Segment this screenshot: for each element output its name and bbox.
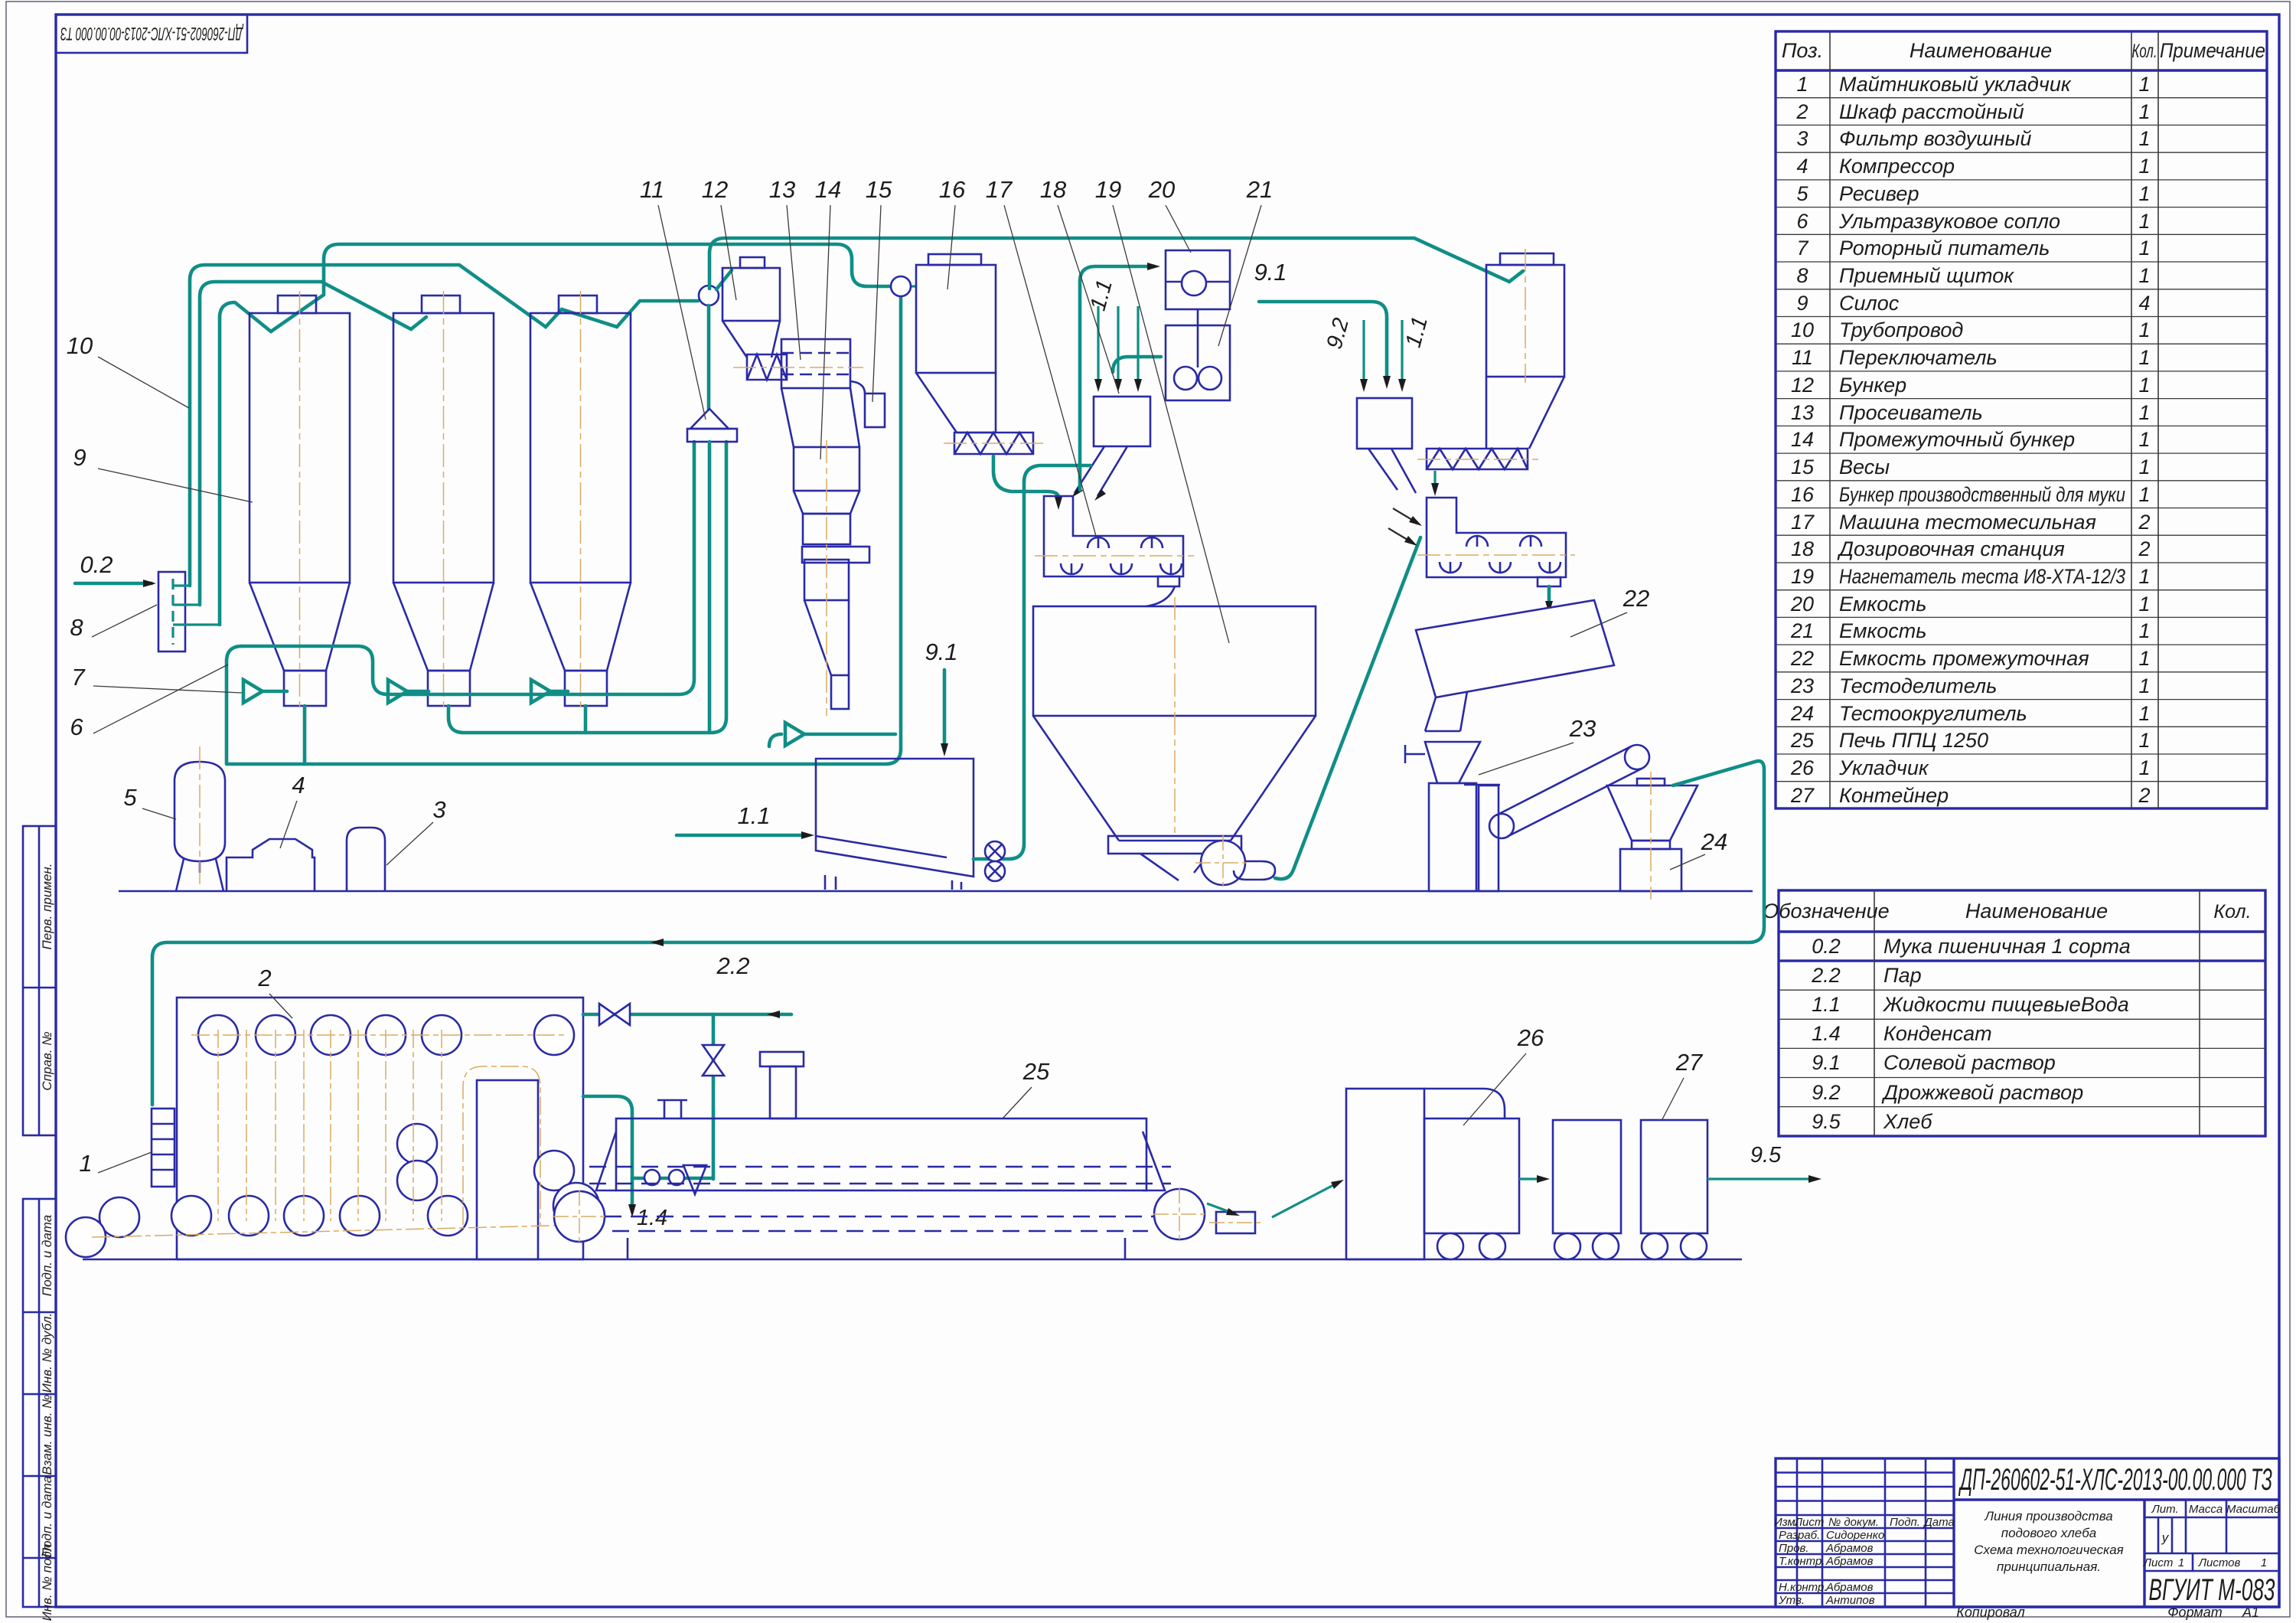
scales 15 (850, 381, 885, 427)
label 27 leader (1662, 1049, 1704, 1119)
svg-text:19: 19 (1791, 565, 1814, 588)
label 22 leader (1570, 585, 1649, 637)
bunker 12 (722, 257, 780, 358)
svg-text:Емкость: Емкость (1839, 593, 1926, 616)
upper section floor line (119, 890, 1753, 893)
pipe run lower A-B cascade (242, 442, 694, 694)
svg-text:Солевой раствор: Солевой раствор (1883, 1051, 2056, 1074)
sifter 13 (733, 339, 863, 388)
svg-text:12: 12 (1791, 374, 1814, 397)
svg-text:Нагнетатель теста И8-ХТА-12/3: Нагнетатель теста И8-ХТА-12/3 (1839, 565, 2125, 588)
svg-text:1.4: 1.4 (1812, 1022, 1841, 1045)
tank 21 with agitator (1166, 309, 1230, 400)
pipe to silo 1 and production bunker 16 (220, 244, 889, 625)
svg-text:Шкаф расстойный: Шкаф расстойный (1839, 100, 2024, 123)
svg-text:2: 2 (2138, 537, 2150, 560)
svg-text:1: 1 (2138, 318, 2150, 341)
pipe bunker16 screw to mixer 17 (993, 456, 1058, 504)
svg-text:13: 13 (1791, 401, 1814, 424)
return pipe rounder to proofer (152, 761, 1764, 1105)
intermediate bunker 14 (781, 388, 869, 716)
dough hopper 19 (1033, 597, 1316, 890)
svg-text:2.2: 2.2 (1811, 964, 1841, 987)
svg-text:1.4: 1.4 (637, 1206, 667, 1230)
containers 27 (1553, 1120, 1707, 1259)
title block (1774, 1458, 2281, 1607)
svg-text:26: 26 (1517, 1024, 1544, 1051)
svg-text:25: 25 (1790, 729, 1815, 752)
svg-text:Сидоренко: Сидоренко (1826, 1529, 1884, 1542)
bread transfer arrows to stacker (1207, 1180, 1344, 1217)
svg-text:Дата: Дата (1923, 1516, 1955, 1529)
pipe to silo 2 (200, 282, 426, 605)
feeder outlet stubs (263, 690, 568, 694)
svg-text:Схема технологическая: Схема технологическая (1974, 1543, 2124, 1557)
svg-text:5: 5 (123, 784, 137, 811)
pipe 10 to silo 3 and switch (190, 265, 698, 586)
svg-text:1: 1 (2138, 428, 2150, 451)
black feed arrows into mixer 17b (1388, 508, 1422, 546)
svg-text:1: 1 (2138, 674, 2150, 697)
svg-text:22: 22 (1790, 647, 1814, 670)
svg-text:17: 17 (1791, 511, 1815, 534)
flow 0.2 flour inlet arrow (75, 551, 156, 587)
label 1 leader (79, 1150, 152, 1177)
label 17 leader (986, 176, 1096, 536)
svg-text:Роторный питатель: Роторный питатель (1839, 237, 2050, 260)
svg-text:1: 1 (2138, 593, 2150, 616)
svg-text:18: 18 (1040, 176, 1067, 203)
svg-text:1: 1 (79, 1150, 92, 1177)
bread out 9.5 (1707, 1143, 1821, 1183)
pipe stub silo neck 3 (584, 706, 588, 733)
rotary feeder 7 (531, 680, 550, 703)
svg-text:Печь ППЦ 1250: Печь ППЦ 1250 (1839, 729, 1988, 752)
platform scales with 1.1 inlet (677, 759, 974, 890)
svg-text:3: 3 (1796, 127, 1808, 150)
dough mixer 17 (1035, 496, 1194, 606)
svg-text:Промежуточный бункер: Промежуточный бункер (1839, 428, 2075, 451)
feeder under bunker 14 (785, 723, 804, 746)
svg-text:1: 1 (2138, 374, 2150, 397)
svg-text:Масштаб: Масштаб (2226, 1503, 2281, 1516)
svg-text:1: 1 (2138, 456, 2150, 478)
svg-text:23: 23 (1790, 674, 1814, 697)
svg-text:Конденсат: Конденсат (1883, 1022, 1992, 1045)
svg-text:16: 16 (1791, 483, 1815, 506)
svg-text:1: 1 (2138, 619, 2150, 642)
label 2 leader (257, 965, 292, 1018)
lower section floor (83, 1259, 1742, 1261)
svg-text:Кол.: Кол. (2213, 901, 2251, 923)
svg-text:20: 20 (1790, 593, 1814, 616)
label 9 leader (73, 444, 253, 502)
label 5 leader (123, 784, 176, 819)
svg-text:Емкость промежуточная: Емкость промежуточная (1839, 647, 2089, 670)
receiver 5 (174, 746, 225, 891)
inclined conveyor (1464, 745, 1649, 891)
silo 9 #2 (393, 291, 494, 712)
diverter switch 11 (687, 238, 1523, 733)
svg-text:Контейнер: Контейнер (1839, 784, 1949, 807)
svg-text:1: 1 (2138, 182, 2150, 205)
rotary feeder 7 (388, 680, 407, 703)
tank 20 (1166, 250, 1230, 309)
air filter 3 (347, 828, 385, 891)
pipe stub silo neck 1 (303, 706, 307, 764)
svg-text:21: 21 (1246, 176, 1273, 203)
dough transfer pipe to mixer 17b (1275, 537, 1420, 879)
label 20 leader (1148, 176, 1191, 253)
svg-text:Бункер: Бункер (1839, 374, 1906, 397)
svg-text:у: у (2161, 1530, 2170, 1545)
svg-text:1: 1 (2261, 1556, 2267, 1569)
svg-text:Дрожжевой раствор: Дрожжевой раствор (1881, 1081, 2083, 1104)
silo 9 #1 (249, 291, 350, 712)
svg-text:1: 1 (2138, 264, 2150, 287)
svg-text:14: 14 (815, 176, 841, 203)
svg-text:10: 10 (67, 332, 93, 359)
svg-text:Кол.: Кол. (2132, 41, 2157, 62)
rotary feeder 7 (243, 680, 263, 703)
svg-text:13: 13 (769, 176, 795, 203)
label 7 leader (71, 664, 242, 693)
svg-text:Антипов: Антипов (1825, 1594, 1875, 1607)
parts list table (1776, 31, 2267, 808)
svg-text:24: 24 (1701, 828, 1727, 855)
svg-text:Пар: Пар (1883, 964, 1922, 987)
svg-text:4: 4 (292, 772, 305, 798)
svg-text:Силос: Силос (1839, 292, 1900, 315)
svg-text:Справ. №: Справ. № (40, 1031, 54, 1090)
dough divider 23 (1405, 742, 1480, 891)
svg-text:Жидкости пищевыеВода: Жидкости пищевыеВода (1882, 993, 2129, 1016)
pendulum stacker 1 (152, 1109, 174, 1187)
svg-text:15: 15 (1791, 456, 1815, 478)
svg-text:Ресивер: Ресивер (1839, 182, 1919, 205)
left margin label boxes (23, 826, 56, 1607)
svg-text:Хлеб: Хлеб (1883, 1110, 1932, 1133)
svg-text:Листов: Листов (2198, 1556, 2241, 1569)
svg-text:15: 15 (866, 176, 892, 203)
svg-text:Перв. примен.: Перв. примен. (40, 864, 54, 950)
svg-text:24: 24 (1790, 702, 1814, 725)
proofer conveyor wheels (66, 1015, 599, 1257)
arrow stacker to container (1519, 1175, 1550, 1183)
svg-text:Ультразвуковое сопло: Ультразвуковое сопло (1838, 210, 2060, 233)
svg-text:Подп. и дата: Подп. и дата (40, 1215, 54, 1296)
svg-text:Мука пшеничная 1 сорта: Мука пшеничная 1 сорта (1883, 935, 2131, 958)
svg-text:2: 2 (257, 965, 271, 991)
svg-text:9.5: 9.5 (1750, 1143, 1782, 1167)
svg-text:8: 8 (1796, 264, 1808, 287)
production bunker 16 (891, 254, 1045, 454)
pipe 1.1 to tank 20 (1080, 263, 1160, 490)
svg-text:18: 18 (1791, 537, 1814, 560)
svg-text:Инв. № подл: Инв. № подл (40, 1543, 54, 1621)
pump valves pair (985, 841, 1005, 881)
svg-text:Абрамов: Абрамов (1825, 1581, 1874, 1594)
intermediate bunker right (1417, 249, 1564, 469)
svg-text:27: 27 (1675, 1049, 1704, 1076)
svg-text:Переключатель: Переключатель (1839, 346, 1998, 369)
svg-text:9.1: 9.1 (1812, 1051, 1841, 1074)
svg-text:Т.контр.: Т.контр. (1779, 1555, 1825, 1568)
label 24 leader (1670, 828, 1727, 870)
svg-text:Примечание: Примечание (2160, 39, 2265, 62)
svg-text:1: 1 (2138, 565, 2150, 588)
svg-text:25: 25 (1022, 1058, 1050, 1085)
svg-text:6: 6 (1796, 210, 1808, 233)
svg-text:14: 14 (1791, 428, 1814, 451)
intermediate container 22 (1416, 600, 1614, 731)
svg-text:12: 12 (702, 176, 728, 203)
svg-text:Разраб.: Разраб. (1779, 1529, 1820, 1542)
label 6 leader (70, 665, 228, 740)
svg-text:21: 21 (1790, 619, 1814, 642)
svg-text:Поз.: Поз. (1782, 39, 1823, 62)
svg-text:Укладчик: Укладчик (1838, 756, 1929, 779)
svg-text:7: 7 (1796, 237, 1808, 260)
svg-text:ДП-260602-51-ХЛС-2013-00.00.00: ДП-260602-51-ХЛС-2013-00.00.000 ТЗ (60, 23, 244, 44)
transfer piece after oven (1209, 1212, 1263, 1233)
svg-text:Утв.: Утв. (1778, 1594, 1805, 1607)
svg-text:9.5: 9.5 (1812, 1110, 1841, 1133)
svg-text:Тестоделитель: Тестоделитель (1839, 674, 1997, 697)
svg-text:Лит.: Лит. (2151, 1503, 2178, 1516)
svg-text:Компрессор: Компрессор (1839, 155, 1955, 178)
brine pipe 9.1 (1254, 259, 1391, 389)
svg-text:2: 2 (1795, 100, 1808, 123)
svg-text:1: 1 (2138, 647, 2150, 670)
svg-text:Наименование: Наименование (1910, 39, 2052, 62)
svg-text:1: 1 (2138, 729, 2150, 752)
svg-text:Абрамов: Абрамов (1825, 1555, 1874, 1568)
screw discharge to mixer 17b (1431, 471, 1439, 496)
svg-text:23: 23 (1569, 715, 1596, 742)
svg-text:7: 7 (71, 664, 86, 691)
svg-text:Трубопровод: Трубопровод (1839, 318, 1963, 341)
svg-text:№ докум.: № докум. (1828, 1516, 1879, 1529)
svg-text:1: 1 (2138, 155, 2150, 178)
svg-text:26: 26 (1790, 756, 1815, 779)
svg-text:1: 1 (2138, 100, 2150, 123)
label 14 leader (815, 176, 841, 459)
svg-text:Тестоокруглитель: Тестоокруглитель (1839, 702, 2027, 725)
flows table (1763, 890, 2265, 1136)
svg-text:Подп.: Подп. (1890, 1516, 1920, 1529)
svg-text:Просеиватель: Просеиватель (1839, 401, 1983, 424)
svg-text:2: 2 (2138, 784, 2150, 807)
dough rounder 24 (1607, 772, 1698, 900)
condensate drop 1.4 (583, 1096, 713, 1230)
svg-text:Н.контр.: Н.контр. (1779, 1581, 1828, 1594)
svg-text:1: 1 (2178, 1556, 2184, 1569)
svg-text:Лист: Лист (1794, 1516, 1825, 1529)
svg-text:9.2: 9.2 (1812, 1081, 1841, 1104)
dosing station 18 (1071, 397, 1150, 501)
svg-text:8: 8 (70, 614, 83, 641)
svg-text:Масса: Масса (2189, 1503, 2223, 1516)
svg-text:1: 1 (2138, 127, 2150, 150)
label 10 leader (67, 332, 189, 408)
label 23 leader (1479, 715, 1596, 775)
water feed arrows 1.1 (1086, 277, 1142, 392)
proofer serpentine path (92, 1030, 582, 1237)
svg-text:1: 1 (2138, 401, 2150, 424)
svg-text:1: 1 (2138, 702, 2150, 725)
tunnel oven 25 (553, 1052, 1205, 1259)
svg-text:9.1: 9.1 (1254, 259, 1287, 286)
svg-text:16: 16 (939, 176, 966, 203)
svg-text:9.1: 9.1 (925, 638, 957, 665)
svg-text:3: 3 (432, 796, 445, 823)
svg-text:4: 4 (2138, 292, 2150, 315)
svg-text:9: 9 (73, 444, 86, 471)
svg-text:19: 19 (1095, 176, 1121, 203)
svg-text:Машина тестомесильная: Машина тестомесильная (1839, 511, 2096, 534)
pipe run lower D long (227, 297, 901, 764)
steam fittings in oven (644, 1165, 706, 1194)
label 15 leader (866, 176, 892, 402)
svg-text:Линия производства: Линия производства (1984, 1509, 2112, 1523)
svg-text:4: 4 (1796, 155, 1808, 178)
feeds 9.2 and 1.1 (1322, 314, 1433, 392)
svg-text:9: 9 (1796, 292, 1808, 315)
svg-text:1: 1 (1796, 73, 1808, 96)
svg-text:Обозначение: Обозначение (1763, 900, 1889, 923)
svg-text:2.2: 2.2 (716, 952, 749, 979)
svg-text:5: 5 (1796, 182, 1808, 205)
svg-text:1: 1 (2138, 756, 2150, 779)
steam line 2.2 with valves (583, 952, 791, 1179)
svg-text:10: 10 (1791, 318, 1814, 341)
pipe scales to dosing riser (974, 465, 1091, 859)
svg-text:подового хлеба: подового хлеба (2001, 1526, 2097, 1540)
label 21 leader (1218, 176, 1273, 346)
svg-text:17: 17 (986, 176, 1013, 203)
svg-text:1.1: 1.1 (737, 802, 770, 829)
stacker 26 (1346, 1089, 1519, 1259)
compressor 4 (227, 839, 315, 891)
dosing station 18b (1357, 398, 1416, 493)
svg-text:Пров.: Пров. (1779, 1542, 1809, 1555)
label 18 leader (1040, 176, 1119, 394)
svg-text:Приемный щиток: Приемный щиток (1839, 264, 2014, 287)
svg-text:ВГУИТ М-083: ВГУИТ М-083 (2149, 1573, 2275, 1607)
svg-text:Инв. № дубл.: Инв. № дубл. (40, 1313, 54, 1393)
label 26 leader (1463, 1024, 1544, 1125)
label 19 leader (1095, 176, 1229, 643)
svg-text:0.2: 0.2 (80, 551, 113, 578)
svg-text:Емкость: Емкость (1839, 619, 1926, 642)
label 16 leader (939, 176, 966, 289)
pipe run lower C (448, 442, 726, 733)
dough mixer 17b (1417, 498, 1575, 586)
svg-text:0.2: 0.2 (1812, 935, 1841, 958)
svg-text:27: 27 (1790, 784, 1815, 807)
svg-text:принципиальная.: принципиальная. (1997, 1559, 2101, 1574)
svg-text:2: 2 (2138, 511, 2150, 534)
svg-text:Бункер производственный для му: Бункер производственный для муки (1839, 483, 2125, 506)
svg-text:ДП-260602-51-ХЛС-2013-00.00.00: ДП-260602-51-ХЛС-2013-00.00.000 ТЗ (1958, 1463, 2272, 1497)
label 8 leader (70, 605, 157, 641)
svg-text:1: 1 (2138, 346, 2150, 369)
svg-text:Дозировочная станция: Дозировочная станция (1837, 537, 2065, 560)
svg-text:Весы: Весы (1839, 456, 1890, 478)
brine feed 9.1 to scales (925, 638, 957, 756)
top-left stamp box (56, 15, 247, 53)
label 11 leader (640, 176, 706, 420)
svg-text:22: 22 (1623, 585, 1649, 612)
label 4 leader (280, 772, 305, 848)
pipe stub to tank 21 (1113, 357, 1161, 372)
svg-text:Абрамов: Абрамов (1825, 1542, 1874, 1555)
receiving panel item 8 (158, 572, 221, 651)
svg-text:6: 6 (70, 714, 83, 740)
svg-text:1: 1 (2138, 483, 2150, 506)
svg-text:11: 11 (1792, 346, 1813, 369)
label 3 leader (386, 796, 446, 865)
mixer 17b outlet pipe (1545, 586, 1553, 614)
svg-text:1: 1 (2138, 210, 2150, 233)
svg-text:Взам. инв. №: Взам. инв. № (40, 1394, 54, 1474)
svg-text:1: 1 (2138, 237, 2150, 260)
svg-text:1: 1 (2138, 73, 2150, 96)
svg-text:20: 20 (1148, 176, 1175, 203)
svg-text:11: 11 (640, 176, 664, 203)
label 12 leader (702, 176, 736, 300)
svg-text:Фильтр воздушный: Фильтр воздушный (1839, 127, 2031, 150)
silo 9 #3 (530, 291, 631, 712)
svg-text:1.1: 1.1 (1812, 993, 1841, 1016)
proofing cabinet 2 (177, 998, 583, 1259)
label 13 leader (769, 176, 801, 360)
label 25 leader (1003, 1058, 1050, 1118)
svg-text:Лист: Лист (2143, 1556, 2174, 1569)
svg-text:Наименование: Наименование (1965, 900, 2108, 923)
svg-text:Майтниковый укладчик: Майтниковый укладчик (1839, 73, 2072, 96)
